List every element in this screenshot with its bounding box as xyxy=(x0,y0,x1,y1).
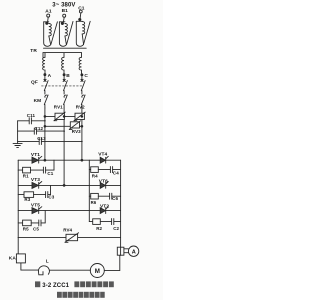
label R2 xyxy=(96,226,102,231)
capacitor C3 xyxy=(46,185,51,197)
svg-text:R4: R4 xyxy=(92,173,98,178)
ground xyxy=(13,144,22,148)
svg-text:R2: R2 xyxy=(96,226,102,231)
svg-text:R6: R6 xyxy=(91,200,97,205)
caption line 2 hanzi blobs xyxy=(57,292,105,298)
capacitor C5 xyxy=(39,211,45,226)
label C4 xyxy=(113,171,119,176)
label C1 xyxy=(47,171,53,176)
wire left dc bus xyxy=(17,160,19,237)
wire RV row xyxy=(45,115,82,117)
label C2 xyxy=(113,226,119,231)
label C5 xyxy=(33,226,39,231)
thyristor VT6 xyxy=(100,182,108,189)
wire phase B down xyxy=(63,108,65,185)
label 3~380V supply xyxy=(52,3,75,9)
label KM xyxy=(34,98,42,104)
breaker QF pole A xyxy=(44,76,48,94)
wire bridge row 2 xyxy=(18,184,120,186)
wire bottom rail xyxy=(18,237,120,239)
label RV4 xyxy=(63,228,72,233)
thyristor VT5 xyxy=(32,207,42,214)
label VT4 xyxy=(98,152,107,158)
label C3 xyxy=(48,195,54,200)
resistor R4 xyxy=(89,167,110,173)
resistor R3 xyxy=(18,192,45,198)
transformer TR primary winding C xyxy=(76,13,90,46)
wire motor to bus xyxy=(104,269,120,271)
junction dots RV row xyxy=(44,116,46,118)
caption line 1 xyxy=(42,283,69,289)
varistor RV2 xyxy=(74,112,85,121)
caption line 1 hanzi blobs xyxy=(35,281,114,287)
wire bottom left xyxy=(21,269,38,271)
svg-text:RV4: RV4 xyxy=(63,228,72,233)
label VT6 xyxy=(99,178,108,184)
svg-text:KA: KA xyxy=(9,255,17,261)
label VT5 xyxy=(31,202,40,208)
svg-text:RV3: RV3 xyxy=(72,129,81,134)
svg-text:B1: B1 xyxy=(62,8,69,14)
reactor L xyxy=(38,266,49,275)
capacitor C6 xyxy=(110,193,121,199)
breaker QF pole B xyxy=(63,76,67,94)
wire RV3 row xyxy=(45,125,82,127)
resistor R6 xyxy=(89,193,109,199)
varistor RV4 xyxy=(65,233,79,243)
node phase B row2 xyxy=(63,185,65,187)
capacitor C12 xyxy=(18,128,65,134)
breaker linkage dashed xyxy=(42,85,84,87)
svg-text:RV1: RV1 xyxy=(54,105,63,110)
label RV2 xyxy=(76,105,85,110)
svg-text:R1: R1 xyxy=(23,174,29,179)
contactor KM pole C xyxy=(81,95,85,108)
terminal A1 label xyxy=(45,9,52,15)
varistor RV3 xyxy=(69,121,80,130)
secondary winding b xyxy=(62,57,64,73)
label RV1 xyxy=(54,105,63,110)
contactor KM pole B xyxy=(64,95,68,108)
capacitor C1 xyxy=(43,160,54,173)
thyristor VT2 xyxy=(100,207,108,214)
label R5 xyxy=(23,226,29,231)
svg-text:3-2 ZCC1: 3-2 ZCC1 xyxy=(42,283,69,289)
thyristor VT4 xyxy=(100,156,108,163)
terminal C1 label xyxy=(78,6,85,12)
label C13 xyxy=(37,136,46,141)
label VT1 xyxy=(31,152,40,158)
svg-text:TR: TR xyxy=(30,48,37,54)
svg-text:C2: C2 xyxy=(113,226,119,231)
terminal A1 xyxy=(47,14,50,17)
shunt xyxy=(117,247,124,255)
label R4 xyxy=(92,173,98,178)
svg-text:R3: R3 xyxy=(24,197,30,202)
svg-text:3~ 380V: 3~ 380V xyxy=(52,3,75,9)
resistor R1 xyxy=(18,167,43,173)
label VT2 xyxy=(100,204,109,210)
transformer core line xyxy=(44,47,87,49)
label KA xyxy=(9,255,17,261)
wire phase C down xyxy=(81,108,83,160)
wire right dc bus xyxy=(120,160,122,247)
label VT3 xyxy=(31,177,40,183)
wire phase A down xyxy=(44,108,46,160)
wire shunt taps xyxy=(124,248,129,250)
node A xyxy=(44,74,46,76)
thyristor VT1 xyxy=(32,156,42,163)
varistor RV1 xyxy=(54,112,65,121)
thyristor VT3 xyxy=(32,182,42,189)
svg-text:M: M xyxy=(95,268,100,275)
svg-text:L: L xyxy=(46,259,49,265)
label C6 xyxy=(112,196,118,201)
node phase C row1 xyxy=(81,159,83,161)
svg-text:A: A xyxy=(48,73,52,79)
terminal C1 xyxy=(79,10,82,13)
transformer TR primary winding B xyxy=(59,17,73,46)
label C12 xyxy=(35,126,44,131)
label R1 xyxy=(23,174,29,179)
svg-text:B: B xyxy=(66,73,70,79)
svg-text:A: A xyxy=(132,249,136,255)
label C11 xyxy=(27,113,36,118)
label L xyxy=(46,259,49,265)
transformer secondary star rail xyxy=(43,53,82,58)
svg-text:VT4: VT4 xyxy=(98,152,107,158)
svg-text:C5: C5 xyxy=(33,226,39,231)
capacitor C2 xyxy=(112,219,121,225)
label R3 xyxy=(24,197,30,202)
svg-text:C3: C3 xyxy=(48,195,54,200)
node C xyxy=(81,74,83,76)
wire right cell chain xyxy=(88,160,90,221)
secondary winding c xyxy=(79,57,81,73)
label QF xyxy=(31,80,38,86)
capacitor C13 xyxy=(18,138,83,144)
capacitor C4 xyxy=(110,167,120,173)
label TR xyxy=(30,48,37,54)
wire reactor to motor xyxy=(49,269,90,271)
motor M xyxy=(90,264,104,278)
ammeter A xyxy=(128,246,138,256)
node B xyxy=(63,74,65,76)
secondary winding a xyxy=(43,57,45,73)
label RV3 xyxy=(72,129,81,134)
resistor R2 xyxy=(89,219,111,225)
svg-text:C4: C4 xyxy=(113,171,119,176)
svg-text:C1: C1 xyxy=(47,171,53,176)
svg-text:RV2: RV2 xyxy=(76,105,85,110)
node phase A row1 xyxy=(44,159,46,161)
transformer TR primary winding A xyxy=(44,17,58,46)
contactor KM pole A xyxy=(44,95,48,108)
svg-text:KM: KM xyxy=(34,98,42,104)
terminal B1 xyxy=(63,14,66,17)
breaker QF pole C xyxy=(81,76,85,94)
resistor R5 xyxy=(18,220,39,226)
svg-text:QF: QF xyxy=(31,80,38,86)
svg-text:C: C xyxy=(84,73,88,79)
svg-text:C6: C6 xyxy=(112,196,118,201)
label R6 xyxy=(91,200,97,205)
svg-text:R5: R5 xyxy=(23,226,29,231)
wire ground bus xyxy=(17,121,19,144)
relay coil KA xyxy=(16,238,25,271)
terminal B1 label xyxy=(62,8,69,14)
svg-text:C12: C12 xyxy=(35,126,44,131)
wire bridge row 3 xyxy=(18,210,120,212)
wire bridge row 1 xyxy=(18,159,120,161)
capacitor C11 xyxy=(18,118,46,124)
